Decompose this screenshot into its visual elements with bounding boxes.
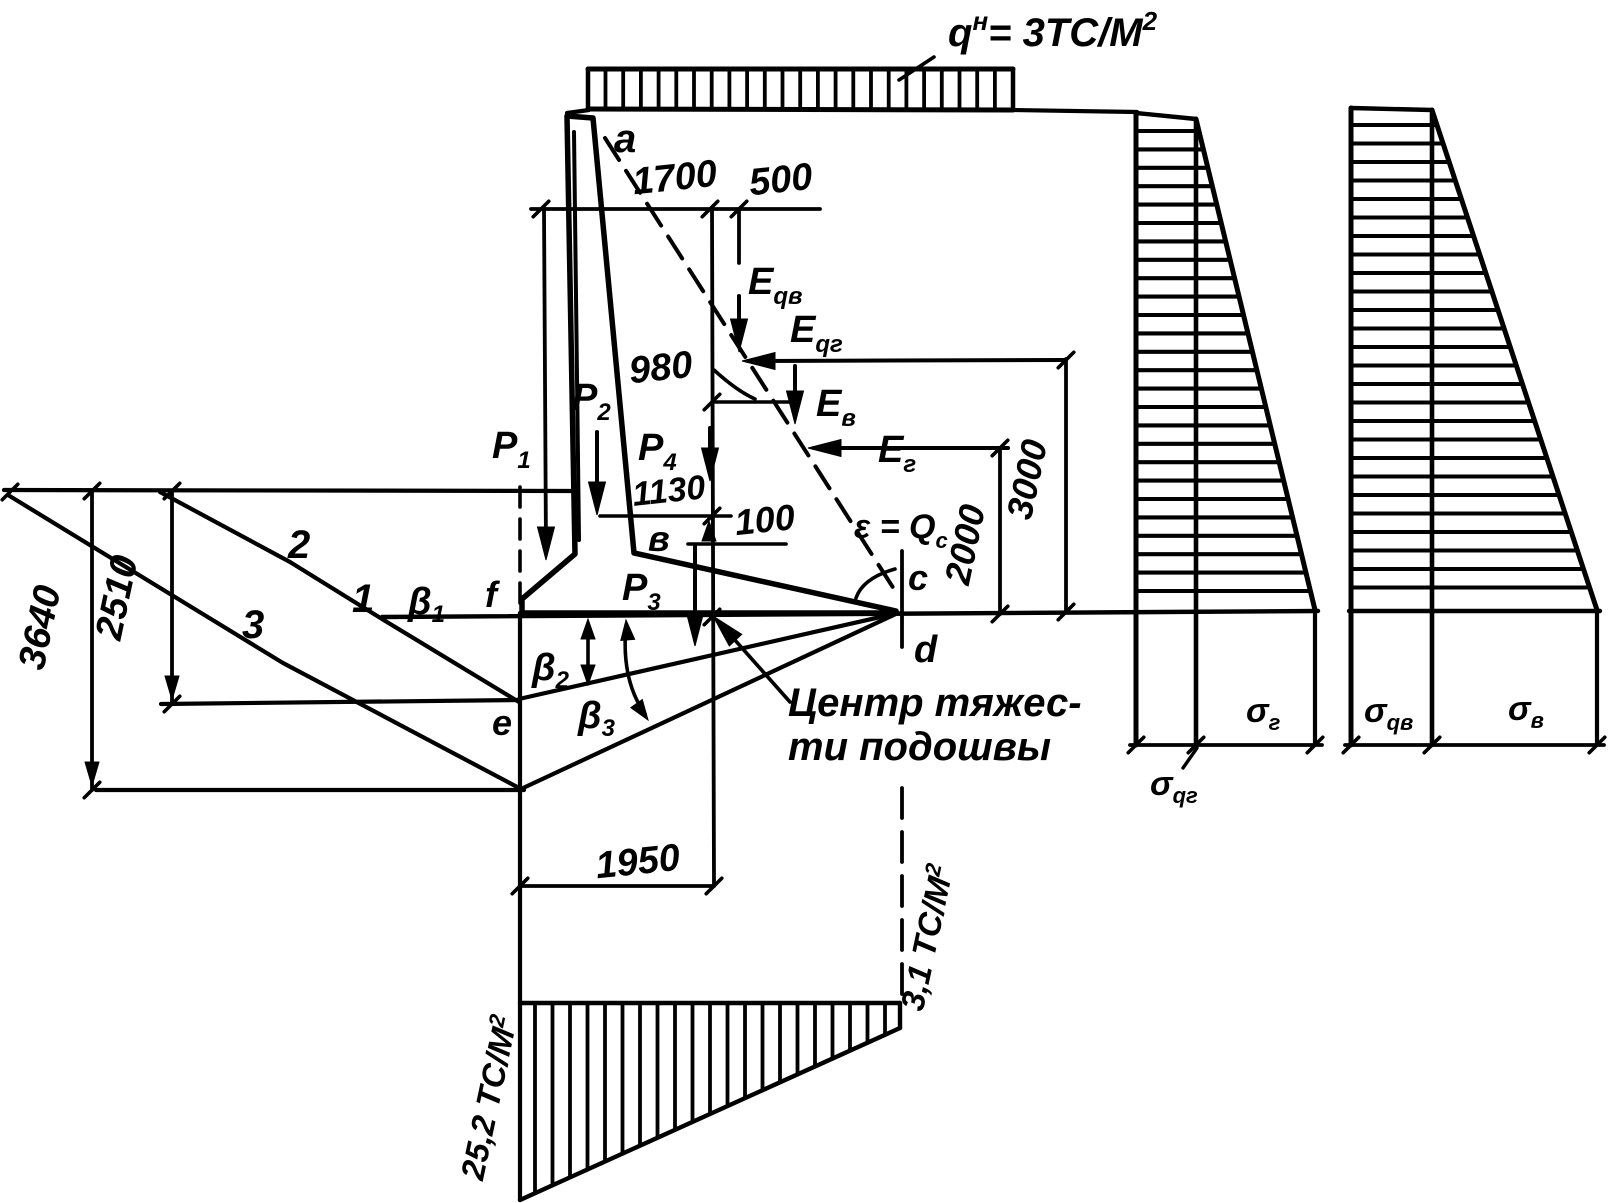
svg-text:ти подошвы: ти подошвы: [788, 725, 1051, 769]
svg-text:e: e: [492, 702, 512, 743]
svg-text:500: 500: [747, 156, 814, 204]
svg-text:d: d: [914, 629, 938, 671]
svg-text:Центр тяжес-: Центр тяжес-: [788, 681, 1082, 725]
svg-text:в: в: [648, 518, 670, 559]
svg-text:1950: 1950: [594, 837, 682, 888]
svg-text:2: 2: [287, 523, 310, 567]
svg-text:1700: 1700: [631, 153, 719, 204]
svg-text:100: 100: [733, 496, 797, 543]
svg-text:1: 1: [352, 577, 374, 621]
svg-text:980: 980: [627, 344, 694, 392]
svg-text:c: c: [908, 557, 928, 598]
svg-text:a: a: [614, 117, 636, 161]
svg-text:3: 3: [242, 603, 264, 647]
